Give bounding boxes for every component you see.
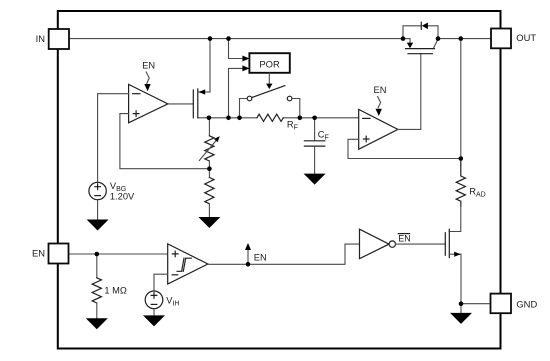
wire comparator output to inverter [208,244,360,264]
wire VBG to ground [97,200,99,220]
svg-text:EN: EN [254,252,267,262]
junction OUT rail / RAD [459,36,464,41]
wire RAD to Q2 drain [449,201,461,231]
wire U1 non-inverting input to feedback tap [120,114,209,169]
arrowhead POR input 2 [242,65,249,71]
wire M1 source rail left [198,117,257,119]
transistor M1 (internal pass FET) [193,89,210,118]
wire U1 inverting input to VBG [98,94,129,183]
wire POR input from VIN [229,39,244,59]
variable resistor R1 [199,136,220,161]
svg-text:EN: EN [374,85,387,95]
wire IN rail [69,38,403,40]
EN-bar label [398,233,411,243]
junction IN rail / M1 drain [208,36,213,41]
junction M1 source rail [207,116,212,121]
resistor RF [257,114,298,131]
EN label and arrow at U2 [374,85,387,116]
wire variable resistor to tap [208,161,210,178]
op-amp U2 output buffer [359,109,398,149]
junction IN rail / POR sense [226,36,231,41]
junction feedback tap node [207,166,212,171]
voltage source VBG 1.20V [89,181,135,202]
pin GND [491,294,538,314]
wire M1 source rail right [283,117,359,119]
ground VBG [87,220,109,231]
wire Q2 source to ground node [460,254,462,304]
junction POR sense / source rail [226,116,231,121]
switch S1 [247,86,292,101]
transistor Q1 pass PMOS [403,39,438,54]
body diode D1 of Q1 [403,22,438,38]
wire M1 gate lead [168,103,194,105]
resistor R2 lower divider [205,177,214,203]
svg-text:1 MΩ: 1 MΩ [104,286,126,296]
ground R2 [198,217,220,228]
chip outline border [58,11,501,349]
wire switch right leg [292,99,300,118]
voltage source VIH [145,291,179,309]
svg-text:OUT: OUT [516,32,536,43]
svg-text:EN: EN [398,233,411,243]
POR block U3 [249,53,289,73]
wire ground node down [460,304,462,314]
comparator U4 enable with hysteresis [168,244,208,284]
svg-text:IN: IN [36,33,45,44]
junction switch right leg [298,116,303,121]
wire inverter output to Q2 gate [396,243,446,245]
wire output rail to OUT [438,38,491,40]
arrowhead POR input 1 [242,56,249,62]
ground CF [304,174,326,185]
pin IN [36,29,69,49]
svg-text:EN: EN [142,60,155,70]
junction Q1 drain node [436,36,441,41]
EN node arrow and label [245,243,267,264]
junction EN node [246,262,251,267]
resistor RAD [456,159,486,207]
wire ground node to GND pin [461,303,491,305]
svg-text:1.20V: 1.20V [110,192,135,202]
svg-text:GND: GND [516,299,537,310]
wire switch left leg [240,99,248,118]
wire comparator inverting input to VIH [154,274,168,291]
wire RAD top [460,39,462,159]
EN label and arrow at U1 [142,60,155,91]
pin EN [32,244,69,264]
junction Q1 source node [401,36,406,41]
arrow POR to switch [268,73,270,84]
wire R2 to ground [208,204,210,218]
junction RAD top / U2 feedback [459,156,464,161]
resistor 1 Mohm pulldown [92,254,127,318]
transistor Q2 discharge NMOS [445,229,461,257]
svg-text:POR: POR [259,58,280,69]
wire M1 drain riser [202,39,210,92]
op-amp U1 error amplifier [129,84,168,122]
wire VIH to ground [153,309,155,316]
wire EN rail [69,253,168,255]
svg-text:EN: EN [32,248,45,259]
wire U2 output to pass gate [398,54,421,130]
ground VIH [143,315,165,326]
junction EN rail / 1 Mohm [95,252,100,257]
wire POR input from VOUT sense [229,68,244,117]
pin OUT [491,29,536,49]
wire U2 non-inverting input feedback [348,139,461,158]
junction switch left leg [237,116,242,121]
capacitor CF [304,118,328,174]
wire feedback node down to variable resistor [208,118,210,136]
inverter U5 [360,229,396,259]
ground 1 Mohm [86,318,108,329]
ground Q2 [450,313,472,324]
junction CF top [312,116,317,121]
junction Q2 source ground node [459,301,464,306]
